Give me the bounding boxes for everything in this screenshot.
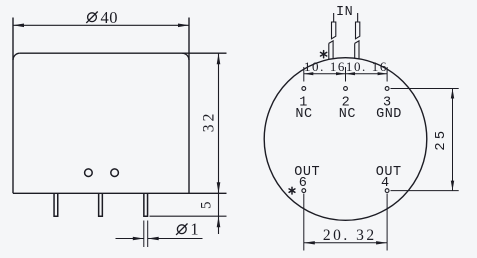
svg-text:5: 5	[198, 201, 214, 209]
svg-text:NC: NC	[295, 107, 312, 122]
svg-text:IN: IN	[336, 5, 353, 20]
svg-text:25: 25	[433, 128, 449, 151]
svg-text:NC: NC	[339, 107, 356, 122]
svg-text:4: 4	[381, 176, 390, 191]
svg-text:GND: GND	[376, 107, 402, 122]
svg-text:10. 16: 10. 16	[346, 59, 388, 74]
svg-text:40: 40	[101, 8, 119, 27]
svg-text:20. 32: 20. 32	[323, 227, 377, 244]
svg-text:32: 32	[201, 110, 218, 132]
svg-text:10. 16: 10. 16	[304, 59, 346, 74]
svg-text:1: 1	[190, 220, 198, 239]
svg-text:6: 6	[299, 176, 308, 191]
